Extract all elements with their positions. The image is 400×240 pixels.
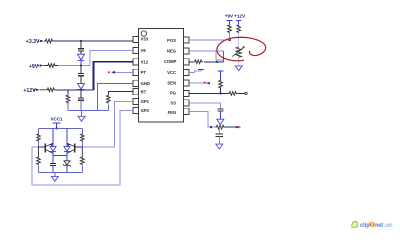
pin RT box [133,89,138,95]
IC pin labels [141,37,177,115]
wire [80,76,82,84]
svg-text:PG: PG [170,91,176,96]
diode D1 [78,54,85,60]
wire to right base [81,142,83,147]
net arrow SEN [206,82,210,85]
node junction on +12V rail [80,89,82,91]
wire SEN pin [189,82,210,84]
wire below D3 [52,151,54,163]
port arrow on +3.3V [40,40,44,42]
pin GP1 box [133,98,138,104]
wire collector Q2 to rail [66,128,68,146]
svg-text:V12: V12 [141,59,149,64]
diode D3 [50,147,56,152]
node POS junction [229,39,231,41]
node junction [236,126,238,128]
wire D5 to bottom rail [66,165,68,172]
node VCC1 junction [56,127,58,129]
resistor R6 [37,134,41,142]
svg-text:+3.3V: +3.3V [26,39,40,45]
wire C5 to D6 [219,111,221,119]
svg-text:V33: V33 [141,37,149,42]
wire to left base [38,142,40,147]
ground arrow pot [235,66,242,71]
wire +9V rail [58,65,90,67]
wire GP1 loop [82,102,133,148]
wire R13 to node [226,126,237,128]
wire +12V to pin V12 [94,62,134,90]
watermark clip2net logo icon [351,221,358,228]
net arrow red [238,126,241,128]
wire NEG pin [189,50,224,52]
zener diode D5 [64,161,70,165]
pin 1 marker circle [141,31,146,36]
pin GND box [133,80,138,86]
pin V33 box [133,36,138,42]
wire R4 to ground rail [67,104,69,110]
svg-text:GND: GND [141,81,150,86]
svg-text:NEG: NEG [167,49,176,54]
net arrow PT [111,71,115,74]
resistor R11 [219,80,223,88]
wire [80,51,82,54]
resistor R12 (PG) [229,92,237,96]
wire base row left [39,146,45,148]
wire C4 to bottom rail [52,166,54,173]
svg-text:+9V: +9V [225,14,234,19]
svg-text:SEN: SEN [167,80,176,85]
resistor R8 lower-left [37,147,41,165]
pin SEN box [184,80,189,86]
potentiometer RV1 [236,47,241,57]
svg-text:+12V: +12V [234,14,246,19]
wire R5 to ground rail [107,105,109,111]
pin NEG box [184,48,189,54]
resistor R4 [66,95,70,104]
svg-text:SS: SS [170,100,176,105]
wire VCC pin to power bar [189,69,201,72]
pin GP2 box [133,107,138,113]
node junction on +9V rail [80,64,82,66]
top rail of bias network [39,127,83,129]
svg-text:2: 2 [371,223,374,229]
ground arrow bias network [54,173,56,177]
resistor R3 on +12V [40,88,56,92]
annotation red ellipse [217,37,266,60]
wire below D4 [66,151,68,160]
ground arrow left chain [81,110,83,116]
svg-text:GP1: GP1 [141,99,150,104]
svg-text:FEN: FEN [168,110,176,115]
ground rail left [68,109,108,111]
svg-text:clip: clip [360,222,370,229]
port arrow on +9V [40,64,44,66]
wire PG to terminal [238,92,245,94]
diode D2 [78,84,85,90]
pin FEN box [184,108,189,114]
wire [80,60,82,65]
port arrow on +12V [36,89,40,91]
wire +9V to pin V6 [90,51,133,66]
svg-text:+9V: +9V [29,64,39,70]
pin V12 box [133,59,138,65]
power symbol at VCC [198,68,204,70]
open terminal circle [245,92,247,94]
capacitor C6 [216,134,223,136]
pin VCC box [184,69,189,75]
wire chain segment from +3.3V rail down [80,41,82,49]
power symbol +9V [227,20,233,24]
power symbol above R11 [218,71,224,80]
wire FEN pin [189,111,216,127]
wire RT pin to R5 [108,92,133,95]
resistor R9 lower-right [80,147,84,165]
svg-text:PT: PT [141,70,147,75]
emitter cross rail [53,154,67,156]
wire vertical to COMP line [223,51,225,62]
resistor R15 [237,25,241,33]
node PG junction [220,92,222,94]
capacitor C3 [78,98,84,100]
pin POS box [184,37,189,43]
resistor R1 on +3.3V [44,39,54,43]
pin PG box [184,90,189,96]
resistor R2 on +9V [44,64,59,68]
capacitor C1 [78,49,84,51]
pin V6 box [133,47,138,53]
diode D4 [64,147,70,152]
wire COMP to divider [204,61,224,63]
wire R11 to PG row [220,88,222,93]
resistor R14 [228,25,232,33]
wire down to C6 [218,127,220,134]
svg-text:net: net [375,222,384,229]
wire pot to ground [238,57,240,66]
wire +3.3V rail to V33 [54,40,133,42]
wire R15 to potentiometer [238,33,240,47]
pin PT box [133,69,138,75]
wire R14 to POS node [229,33,231,40]
svg-text:VCC1: VCC1 [50,116,63,121]
power symbol +12V [236,20,242,24]
svg-text:.com: .com [384,222,393,229]
wire collector Q1 to rail [52,128,54,146]
op-amp U1 (controller IC body) [139,29,184,123]
svg-text:GP2: GP2 [141,108,150,113]
diode D6 [217,119,224,125]
node FEN junction [210,126,212,128]
wire NEG stair [216,51,224,60]
capacitor C5 [217,109,223,111]
node COMP junction [216,61,218,63]
svg-text:+12V: +12V [23,88,36,94]
svg-text:COMP: COMP [164,59,177,64]
svg-text:V6: V6 [141,48,147,53]
transistor Q1 [44,144,46,153]
transistor Q2 [74,144,76,153]
resistor R10 (COMP) [194,60,203,64]
pin SS box [184,100,189,106]
pin COMP box [184,59,189,65]
resistor R7 [81,134,85,142]
wire [80,89,82,97]
wire right branch [81,128,83,133]
node junction on +3.3V rail [80,40,82,42]
wire PT pin [115,71,134,73]
resistor R13 [215,125,225,129]
wire COMP pin [189,61,194,63]
svg-text:VCC: VCC [167,70,176,75]
svg-text:RT: RT [141,89,147,94]
capacitor C4 [50,164,56,166]
wire [80,66,82,74]
ground arrow SS branch [218,137,220,145]
wire POS pin [189,39,230,41]
resistor R5 (RT) [106,95,110,104]
wire R8 to bottom rail [38,165,40,172]
wire SS pin [189,103,221,109]
capacitor C2 [78,73,84,75]
wire [80,100,82,110]
wire left branch [38,128,40,133]
bottom rail [39,172,83,174]
wire +12V rail [56,89,94,91]
wire GP2 loop [32,111,133,186]
stub +12V rail to R4 [67,90,69,95]
wire base row right [75,146,82,148]
wire PG pin [189,92,230,94]
wire R9 to bottom rail [81,165,83,172]
svg-text:POS: POS [167,38,176,43]
wire GND pin down to ground rail [98,83,134,110]
